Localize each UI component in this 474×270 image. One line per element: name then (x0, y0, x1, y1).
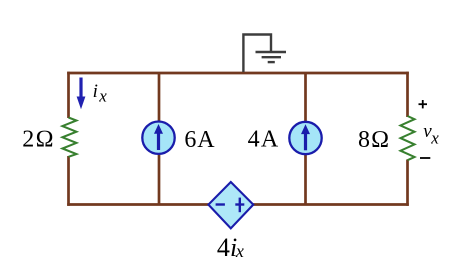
svg-text:i: i (93, 81, 98, 102)
svg-text:x: x (430, 128, 439, 147)
svg-text:Ω: Ω (371, 127, 389, 153)
svg-text:A: A (197, 127, 215, 153)
svg-text:x: x (235, 241, 244, 261)
svg-text:4: 4 (217, 233, 230, 262)
svg-text:A: A (261, 127, 279, 153)
svg-text:Ω: Ω (35, 127, 53, 153)
svg-text:2: 2 (22, 127, 34, 153)
svg-text:6: 6 (184, 127, 196, 153)
svg-text:x: x (98, 87, 107, 106)
svg-text:4: 4 (248, 127, 260, 153)
svg-text:8: 8 (358, 127, 370, 153)
